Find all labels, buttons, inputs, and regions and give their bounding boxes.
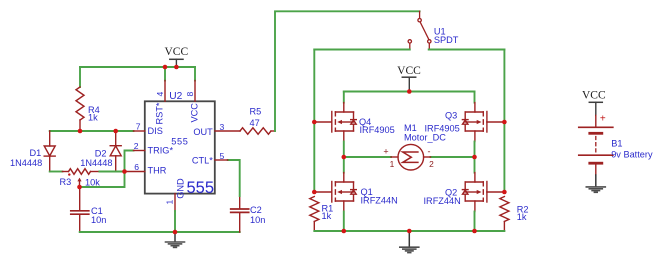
wire Q4 drain drop (343, 92, 345, 103)
svg-text:GND: GND (176, 178, 186, 199)
svg-text:DIS: DIS (148, 126, 163, 136)
svg-text:10n: 10n (91, 215, 106, 225)
VCC power symbol battery (582, 90, 606, 116)
svg-text:Motor_DC: Motor_DC (404, 132, 446, 142)
svg-text:C2: C2 (250, 205, 262, 215)
wire motor row right (431, 156, 475, 158)
svg-text:U2: U2 (169, 91, 182, 102)
resistor R4 (76, 87, 84, 131)
svg-text:R5: R5 (250, 106, 262, 116)
motor M1 Motor_DC (391, 144, 431, 170)
svg-text:1: 1 (390, 159, 395, 169)
potentiometer R3 wiper arrow (77, 178, 81, 182)
svg-text:VCC: VCC (397, 65, 421, 77)
svg-text:+: + (383, 146, 388, 156)
ground symbol battery (586, 175, 605, 192)
svg-text:IRF4905: IRF4905 (360, 125, 395, 135)
pin 5 CTL stub (215, 159, 228, 161)
wire H-bridge VCC rail (344, 91, 475, 93)
node junction VCC symbol stem (174, 65, 179, 70)
svg-text:1k: 1k (517, 212, 527, 222)
node junction Q1 gate / R1 (312, 190, 317, 195)
svg-text:2: 2 (429, 159, 434, 169)
wire R4 top lead drop (79, 67, 81, 87)
transistor Q2 IRFZ44N mirrored (462, 173, 504, 212)
ground symbol H-bridge (400, 231, 419, 253)
wire R5 riser to switch (275, 11, 420, 131)
node junction R3 wiper / C1 (77, 185, 82, 190)
svg-text:9v Battery: 9v Battery (611, 149, 653, 159)
pin 1 GND stub (174, 194, 176, 211)
svg-text:R3: R3 (60, 177, 72, 187)
node junction motor right (472, 155, 477, 160)
svg-text:Q3: Q3 (445, 110, 457, 120)
node junction D2 top (113, 129, 118, 134)
op-amp U2 555 timer body (145, 101, 215, 193)
svg-text:IRFZ44N: IRFZ44N (361, 195, 398, 205)
wire switch left throw to left gate bus (314, 49, 410, 51)
resistor R2 (500, 197, 509, 232)
node junction Q1 source (342, 229, 347, 234)
svg-text:1k: 1k (322, 211, 332, 221)
node junction ground stem (407, 229, 412, 234)
node junction pin4/VCC rail (163, 65, 168, 70)
ground symbol left (166, 232, 185, 247)
svg-text:B1: B1 (611, 138, 622, 148)
svg-text:VCC: VCC (190, 103, 200, 123)
wire Q2 source drop (474, 212, 476, 232)
resistor R1 (310, 197, 319, 232)
node junction TRIG/THR (122, 169, 127, 174)
svg-text:VCC: VCC (582, 90, 606, 102)
diode D2 1N4448 (110, 131, 121, 172)
svg-text:OUT: OUT (193, 127, 213, 137)
node junction Q2 gate / R2 (502, 190, 507, 195)
transistor Q1 arrow (337, 190, 342, 194)
wire motor row left (344, 156, 391, 158)
svg-text:1N4448: 1N4448 (10, 158, 42, 168)
svg-text:1N4448: 1N4448 (80, 158, 112, 168)
svg-text:TRIG*: TRIG* (148, 145, 174, 155)
svg-text:SPDT: SPDT (434, 35, 459, 45)
svg-text:5: 5 (220, 151, 225, 161)
svg-text:10n: 10n (250, 215, 265, 225)
node junction Q4 gate (312, 120, 317, 125)
wire ground rail left section (80, 231, 240, 233)
node junction Q2 source (472, 229, 477, 234)
wire D1 bottom to R3 (50, 171, 63, 173)
svg-text:2: 2 (134, 141, 139, 151)
svg-text:555: 555 (187, 179, 215, 197)
wire pin8 drop green (194, 67, 196, 81)
svg-text:7: 7 (136, 121, 141, 131)
svg-text:555: 555 (171, 137, 188, 147)
potentiometer R3 10k (62, 169, 99, 187)
svg-text:CTL*: CTL* (192, 156, 213, 166)
wire Q4 source to motor row (343, 142, 345, 173)
diode D1 1N4448 (44, 131, 55, 172)
wire CTL to C2 (228, 160, 240, 196)
wire switch common to right gate bus (429, 49, 505, 51)
pin 2 TRIG stub (134, 150, 145, 152)
node junction Q3 gate (502, 120, 507, 125)
wire pin1 to ground rail (174, 211, 176, 232)
potentiometer R3 pin1 mark (68, 173, 70, 175)
transistor Q3 IRF4905 mirrored (462, 103, 504, 142)
transistor Q4 IRF4905 (314, 103, 356, 142)
wire H-bridge ground rail (314, 230, 504, 232)
wire VCC rail top-left (R4 to pin8) (80, 66, 195, 68)
svg-text:THR: THR (148, 166, 167, 176)
wire R3 to TRIG/THR node (99, 171, 124, 173)
wire Q3 drain drop (474, 92, 476, 103)
wire TRIG riser (125, 151, 134, 172)
svg-text:47: 47 (250, 118, 260, 128)
resistor R5 (240, 128, 275, 134)
wire Q3 source to motor row (474, 142, 476, 173)
VCC power symbol U2 supply (164, 46, 188, 67)
pin 8 VCC stub (194, 81, 196, 102)
pin 7 DIS stub (134, 130, 145, 132)
capacitor C1 10n (71, 189, 89, 232)
svg-text:1k: 1k (88, 113, 98, 123)
node junction VCC rail (407, 89, 412, 94)
svg-text:VCC: VCC (164, 46, 188, 58)
svg-text:+: + (600, 114, 606, 125)
pin 3 OUT stub (215, 130, 240, 132)
svg-text:-: - (428, 147, 431, 157)
svg-text:D1: D1 (30, 148, 42, 158)
node junction GND pin rail (173, 230, 178, 235)
wire pin4 drop green (164, 67, 166, 81)
battery B1 9v (579, 115, 613, 175)
wire right gate bus vertical (503, 50, 505, 193)
svg-text:3: 3 (220, 122, 225, 132)
wire left gate bus vertical (313, 50, 315, 193)
capacitor C2 10n (231, 196, 249, 232)
node junction motor left (342, 155, 347, 160)
VCC power symbol H-bridge (397, 65, 421, 90)
svg-text:8: 8 (185, 92, 195, 97)
transistor Q4 arrow (337, 120, 342, 124)
switch U1 SPDT (408, 11, 431, 49)
wire Q1 source drop (343, 212, 345, 232)
svg-text:4: 4 (155, 92, 165, 97)
svg-text:1: 1 (164, 200, 174, 205)
svg-text:IRFZ44N: IRFZ44N (424, 196, 461, 206)
svg-text:D2: D2 (95, 149, 107, 159)
transistor Q1 IRFZ44N (314, 173, 356, 212)
wire net DIS row y131 (50, 130, 134, 132)
svg-text:10k: 10k (85, 177, 100, 187)
wire wiper to node link (80, 172, 125, 188)
pin 4 RST stub (164, 81, 166, 102)
pin 6 THR stub (125, 171, 145, 173)
svg-text:RST*: RST* (155, 102, 165, 124)
svg-text:6: 6 (134, 162, 139, 172)
node junction R4 bottom (78, 129, 83, 134)
